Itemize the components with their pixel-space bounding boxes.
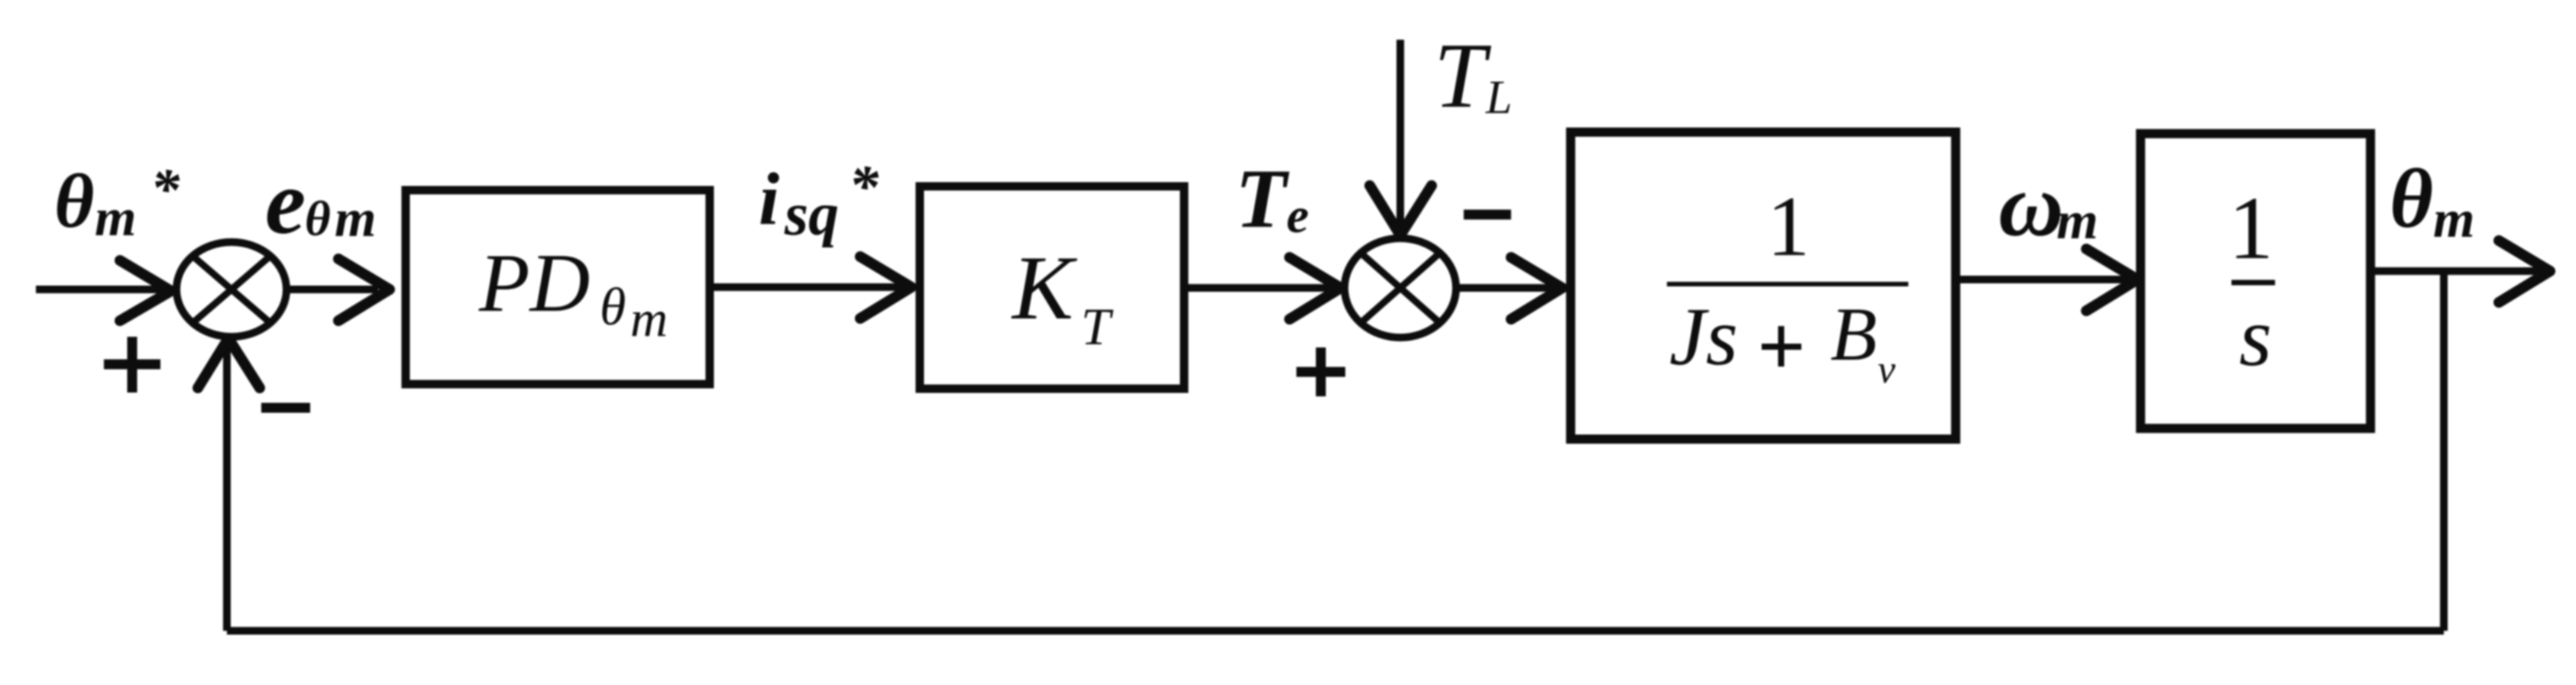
svg-text:K: K (1011, 237, 1078, 338)
wire integrator output theta_m (2371, 267, 2544, 275)
wire S2 to mechanical block (1456, 284, 1555, 292)
arrowhead feedback into S1 (198, 338, 260, 388)
svg-text:θ: θ (2390, 152, 2433, 245)
svg-text:m: m (2057, 192, 2098, 250)
wire input theta_m* (36, 286, 164, 293)
svg-text:θ: θ (54, 158, 94, 244)
fraction bar of 1/s (2231, 280, 2275, 286)
svg-text:θ: θ (305, 192, 331, 247)
svg-text:θ: θ (600, 278, 626, 337)
wire feedback left vertical up to S1 (223, 344, 231, 631)
wire T_L load torque input (1396, 40, 1404, 225)
arrowhead output (2499, 241, 2550, 302)
svg-text:e: e (265, 151, 306, 253)
block PD (PD theta_m controller) (406, 190, 710, 384)
plus sign at S1 (104, 337, 160, 393)
svg-text:*: * (150, 157, 180, 221)
minus sign at S1 feedback (261, 403, 310, 413)
svg-text:B: B (1830, 292, 1877, 376)
svg-text:Js: Js (1669, 292, 1738, 383)
svg-text:sq: sq (784, 181, 839, 248)
signal label T_e (1235, 152, 1309, 245)
arrowhead into summing junction S2 (1290, 257, 1341, 319)
signal label omega_m (1998, 155, 2098, 255)
arrowhead into summing junction S1 (120, 260, 171, 321)
plus sign in Js+Bv (1762, 326, 1801, 367)
svg-text:e: e (1286, 188, 1309, 244)
svg-text:m: m (95, 189, 136, 247)
summing junction S2 (1345, 238, 1456, 338)
svg-text:T: T (1235, 152, 1290, 245)
block 1/(Js+Bv) mechanical transfer function (1571, 132, 1956, 439)
signal label i_sq* (759, 153, 879, 248)
arrowhead into KT block (860, 257, 911, 318)
svg-text:i: i (759, 158, 779, 241)
wire feedback bottom horizontal (227, 627, 2444, 635)
svg-text:T: T (1434, 24, 1492, 128)
block label Js+Bv denominator (1669, 292, 1896, 392)
svg-text:ω: ω (1998, 155, 2063, 255)
summing junction S1 (176, 242, 286, 337)
signal label theta_m* (54, 157, 180, 247)
svg-text:v: v (1878, 348, 1896, 392)
arrowhead into PD block (338, 259, 390, 321)
block label K_T (1011, 237, 1114, 356)
minus sign at S2 (1464, 210, 1511, 220)
wire S1 to PD block (286, 286, 378, 293)
arrowhead T_L into S2 (1370, 186, 1432, 235)
plus sign at S2 (1296, 347, 1345, 396)
block 1/s integrator (2141, 134, 2371, 428)
svg-text:*: * (849, 153, 879, 219)
wire feedback vertical drop at output (2440, 271, 2448, 631)
signal label theta_m output (2390, 152, 2474, 249)
svg-text:L: L (1485, 72, 1512, 124)
block KT (torque constant) (920, 186, 1184, 389)
svg-text:s: s (2239, 290, 2272, 383)
fraction bar of 1/(Js+Bv) (1667, 282, 1908, 286)
signal label T_L (1434, 24, 1512, 128)
svg-text:m: m (2433, 190, 2474, 249)
svg-text:m: m (630, 289, 668, 347)
signal label e_theta_m (265, 151, 376, 253)
svg-text:PD: PD (478, 237, 590, 329)
wire PD to KT block (710, 283, 901, 291)
arrowhead into integrator block (2086, 249, 2137, 311)
arrowhead into mechanical block (1511, 257, 1562, 319)
svg-text:T: T (1081, 298, 1114, 356)
block label PD theta_m (478, 237, 668, 347)
svg-text:m: m (335, 189, 376, 248)
wire mechanical block to integrator (1956, 276, 2128, 283)
svg-text:1: 1 (1767, 179, 1810, 274)
svg-text:1: 1 (2228, 178, 2273, 278)
wire KT to summing junction S2 (1184, 284, 1333, 292)
